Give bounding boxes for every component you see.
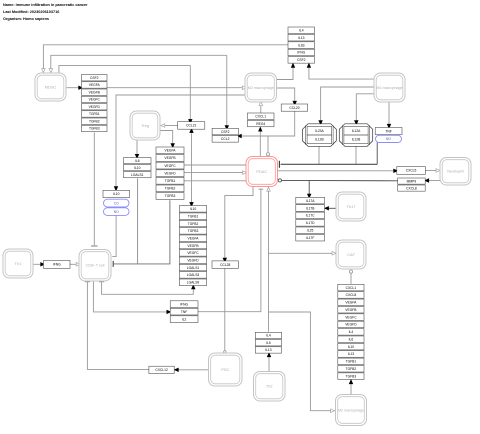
inhibition IL23/IL12/NO-|PDAC xyxy=(279,143,377,168)
svg-text:VEGFB: VEGFB xyxy=(164,156,176,160)
gene stack IFNG/TNF/IL2 xyxy=(170,301,198,323)
wire IFNG->CD8 xyxy=(70,263,80,267)
svg-text:IL10: IL10 xyxy=(134,166,141,170)
cell CD8+ T cell xyxy=(79,250,111,282)
svg-text:M1 macrophage: M1 macrophage xyxy=(377,86,403,90)
svg-text:CD8+ T cell: CD8+ T cell xyxy=(86,264,105,268)
svg-text:Name: Immune infiltration in p: Name: Immune infiltration in pancreatic … xyxy=(3,3,88,7)
svg-text:CXCL8: CXCL8 xyxy=(346,293,357,297)
wire M1->IL12 xyxy=(355,94,374,125)
svg-text:Th1: Th1 xyxy=(15,261,22,266)
cell M2 macrophage (top) xyxy=(245,73,277,102)
wire M1->TNF xyxy=(387,102,391,128)
svg-text:IFNG: IFNG xyxy=(180,302,188,306)
svg-text:MMP9: MMP9 xyxy=(407,179,417,183)
svg-text:Th2: Th2 xyxy=(266,384,273,389)
svg-text:VEGFC: VEGFC xyxy=(164,164,176,168)
svg-text:LGALS1: LGALS1 xyxy=(131,173,144,177)
svg-text:REG4: REG4 xyxy=(256,122,265,126)
cell Th1 xyxy=(3,249,33,278)
svg-text:IL6: IL6 xyxy=(349,337,354,341)
svg-text:CO: CO xyxy=(114,201,119,205)
gene CXCL5 xyxy=(397,167,426,175)
svg-text:CXCL5: CXCL5 xyxy=(406,169,417,173)
svg-text:IFNG: IFNG xyxy=(53,263,61,267)
wire VEGFA->M2 macrophage xyxy=(107,86,246,90)
svg-text:TGFB1: TGFB1 xyxy=(188,214,199,218)
svg-text:LGALS1: LGALS1 xyxy=(187,266,200,270)
svg-text:CXCL1: CXCL1 xyxy=(255,114,266,118)
cell Neutrophil xyxy=(440,158,471,186)
svg-text:IL5: IL5 xyxy=(266,341,271,345)
svg-text:CXCL1: CXCL1 xyxy=(346,286,357,290)
gene stack MDSC CSF2..TGFB3 xyxy=(82,75,108,132)
svg-text:TGFB2: TGFB2 xyxy=(188,222,199,226)
cell PSC xyxy=(209,353,243,386)
svg-text:IL12B: IL12B xyxy=(315,138,324,142)
svg-text:CXCL12: CXCL12 xyxy=(155,368,168,372)
svg-text:IL10: IL10 xyxy=(113,192,120,196)
cell PDAC xyxy=(246,157,278,187)
svg-text:TNF: TNF xyxy=(385,129,391,133)
wire Treg->VEGF stack xyxy=(160,131,174,148)
svg-text:TGFB1: TGFB1 xyxy=(165,179,176,183)
wire CAF->secretion stack xyxy=(349,270,352,284)
svg-text:IL17C: IL17C xyxy=(306,214,315,218)
gene CXCL12 xyxy=(149,366,174,373)
wire IL4/IL5/IL13->PDAC, ->CAF, ->M2 xyxy=(267,187,336,412)
gene TNF + metabolite NO xyxy=(375,128,402,143)
wire Neutrophil->MMP9 stack xyxy=(425,179,440,183)
svg-text:IL2: IL2 xyxy=(182,317,187,321)
inhibition LGALS1-|CD8 xyxy=(113,179,170,267)
svg-text:VEGFB: VEGFB xyxy=(345,308,357,312)
gene stack CXCL1/REG4 xyxy=(248,113,275,127)
svg-text:NO: NO xyxy=(114,210,119,214)
svg-text:NO: NO xyxy=(386,137,391,141)
svg-text:CAF: CAF xyxy=(347,252,355,257)
svg-text:TGFB1: TGFB1 xyxy=(89,112,100,116)
svg-text:Treg: Treg xyxy=(141,123,149,128)
wire CD8<->secretion stack xyxy=(102,281,195,294)
svg-text:IL1B: IL1B xyxy=(298,43,306,47)
svg-text:IL25: IL25 xyxy=(307,229,314,233)
svg-text:IL4: IL4 xyxy=(299,29,304,33)
svg-text:IL17B: IL17B xyxy=(306,206,315,210)
svg-text:TGFB2: TGFB2 xyxy=(165,187,176,191)
svg-text:CSF2: CSF2 xyxy=(297,58,306,62)
svg-text:TGFB1: TGFB1 xyxy=(346,360,357,364)
cell Th2 xyxy=(254,372,286,402)
svg-text:IL17D: IL17D xyxy=(306,221,315,225)
svg-text:CCL20: CCL20 xyxy=(289,106,299,110)
svg-text:TGFB2: TGFB2 xyxy=(89,119,100,123)
svg-text:CSF2: CSF2 xyxy=(90,76,99,80)
svg-text:M2 macrophage: M2 macrophage xyxy=(248,86,274,90)
svg-text:IL13: IL13 xyxy=(265,348,272,352)
svg-text:M2 macrophage: M2 macrophage xyxy=(338,408,364,412)
gene stack IL17 xyxy=(296,197,325,241)
gene IL10 + metabolites CO NO xyxy=(103,190,130,215)
svg-text:VEGFB: VEGFB xyxy=(187,244,199,248)
wire CCL1->Treg xyxy=(161,124,178,128)
svg-text:TGFB3: TGFB3 xyxy=(188,229,199,233)
svg-text:IL4: IL4 xyxy=(349,330,354,334)
svg-text:IL6: IL6 xyxy=(135,159,140,163)
svg-text:VEGFA: VEGFA xyxy=(188,236,200,240)
svg-text:VEGFD: VEGFD xyxy=(345,323,357,327)
gene stack IL4/IL13/IL1B/IFNG/CSF2 xyxy=(288,27,315,63)
svg-text:IL17A: IL17A xyxy=(306,199,315,203)
svg-text:VEGFC: VEGFC xyxy=(89,98,101,102)
gene stack CAF secretion xyxy=(338,284,364,379)
svg-text:CCL21: CCL21 xyxy=(186,124,196,128)
wire MDSC->VEGFA xyxy=(66,86,83,90)
svg-text:IL4: IL4 xyxy=(266,334,271,338)
svg-text:Th17: Th17 xyxy=(347,204,356,209)
wire PDAC->REG4 stack xyxy=(259,127,263,156)
cell CAF xyxy=(336,240,366,269)
svg-text:CXCL8: CXCL8 xyxy=(406,186,417,190)
svg-text:IL10: IL10 xyxy=(190,207,197,211)
wire IL13->MDSC xyxy=(42,45,288,73)
svg-text:IL13: IL13 xyxy=(298,36,305,40)
title text block xyxy=(3,3,88,21)
gene stack IL6/IL10/LGALS1 xyxy=(124,158,152,178)
svg-text:PDAC: PDAC xyxy=(256,169,267,174)
wire PDAC->CCL28->PSC xyxy=(223,187,253,353)
wire CCL20->CSF2/CCL2 and PDAC xyxy=(237,111,294,156)
wire CD8->IFNG/TNF/IL2 xyxy=(93,281,170,314)
wire Th2->IL4 stack xyxy=(267,353,271,371)
wire Th17->IL17 stack xyxy=(325,207,336,211)
svg-text:VEGFA: VEGFA xyxy=(165,149,177,153)
svg-text:IFNG: IFNG xyxy=(297,51,305,55)
wire REG4 stack->M2 xyxy=(259,102,263,113)
svg-text:Neutrophil: Neutrophil xyxy=(447,170,464,174)
svg-text:TGFB3: TGFB3 xyxy=(165,194,176,198)
svg-text:IL17F: IL17F xyxy=(306,236,314,240)
wire ->CCL1 and ->secretion stack xyxy=(190,129,194,207)
wire ->MDSC and ->CSF2/CCL2 stack xyxy=(49,55,229,129)
wire M2->CCL20 xyxy=(277,88,297,105)
gene IFNG xyxy=(44,261,71,269)
wire Th1->IFNG xyxy=(33,263,44,267)
svg-text:IL13: IL13 xyxy=(348,352,355,356)
svg-text:TNF: TNF xyxy=(181,310,187,314)
svg-text:CCL28: CCL28 xyxy=(220,263,230,267)
svg-text:VEGFD: VEGFD xyxy=(164,171,176,175)
svg-text:TGFB3: TGFB3 xyxy=(89,127,100,131)
inhibition NO-|CD8 xyxy=(112,215,116,256)
node anchors CD8 bottom xyxy=(85,281,104,283)
svg-text:CCL2: CCL2 xyxy=(221,137,230,141)
svg-text:VEGFD: VEGFD xyxy=(187,258,199,262)
svg-text:IL12B: IL12B xyxy=(352,138,361,142)
svg-text:LGALS3: LGALS3 xyxy=(187,273,200,277)
wire PSC->CXCL12->CD8 xyxy=(87,282,208,372)
gene stack Treg secretion xyxy=(179,206,206,286)
wire M1->IL23 xyxy=(319,87,374,125)
svg-text:PSC: PSC xyxy=(221,367,229,372)
wire PDAC->CXCL5->Neutrophil xyxy=(278,169,441,173)
cell MDSC xyxy=(35,73,66,101)
svg-text:CSF2: CSF2 xyxy=(221,130,230,134)
wire Treg->IL6 stack xyxy=(135,140,139,158)
gene stack CSF2/CCL2 xyxy=(212,128,238,142)
svg-text:VEGFC: VEGFC xyxy=(187,251,199,255)
svg-text:TGFB3: TGFB3 xyxy=(346,374,357,378)
gene CCL28 xyxy=(212,261,238,268)
svg-text:VEGFC: VEGFC xyxy=(345,315,357,319)
cell M2 macrophage (bottom) xyxy=(336,395,367,426)
wire M2->CAF stack xyxy=(349,380,353,395)
cell Treg xyxy=(130,111,160,140)
svg-text:VEGFA: VEGFA xyxy=(345,301,357,305)
svg-text:VEGFD: VEGFD xyxy=(89,105,101,109)
wire M2->CSF2 xyxy=(277,63,295,79)
gene CCL20 xyxy=(281,104,308,111)
wire M1->CSF2 xyxy=(307,63,374,79)
gene stack MMP9/CXCL8 xyxy=(398,178,426,191)
wires TGF/VEGF rows->PDAC xyxy=(184,165,247,181)
inhibition TGFB-|CD8 xyxy=(91,133,98,247)
gene CCL21 xyxy=(178,122,205,130)
gene stack VEGFA..TGFB3 xyxy=(156,147,184,199)
cell Th17 xyxy=(336,192,366,221)
svg-text:Last Modified: 20230206103716: Last Modified: 20230206103716 xyxy=(3,10,59,14)
complex IL12A/IL12B xyxy=(339,124,372,147)
svg-text:IL12A: IL12A xyxy=(352,129,361,133)
gene stack IL4/IL5/IL13 xyxy=(255,332,281,353)
wire PDAC->IL17 stack and MMP9 line xyxy=(278,179,397,198)
svg-text:LGALS9: LGALS9 xyxy=(187,280,200,284)
svg-text:VEGFA: VEGFA xyxy=(89,83,101,87)
cell M1 macrophage xyxy=(374,73,405,102)
wire MDSC->CCL1 xyxy=(59,66,192,124)
svg-text:TGFB2: TGFB2 xyxy=(346,367,357,371)
svg-text:IL10: IL10 xyxy=(348,345,355,349)
svg-text:Organism: Homo sapiens: Organism: Homo sapiens xyxy=(3,17,49,21)
wire M2->IL10 stack xyxy=(114,95,245,191)
svg-text:MDSC: MDSC xyxy=(45,84,57,89)
complex IL23A/IL12B xyxy=(303,124,337,147)
svg-text:IL23A: IL23A xyxy=(315,129,324,133)
svg-text:VEGFB: VEGFB xyxy=(89,90,101,94)
wire IFNG/TNF/IL2->PDAC xyxy=(198,189,263,312)
